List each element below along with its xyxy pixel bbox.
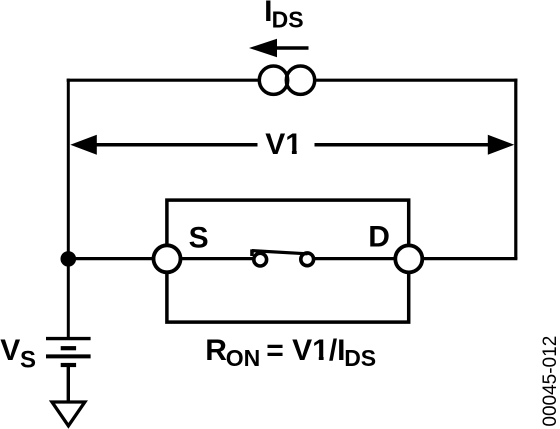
wire top horizontal: [67, 79, 518, 82]
svg-text:V1: V1: [265, 128, 302, 161]
wire switch to D terminal: [306, 257, 409, 260]
switch lever pivot tick: [250, 249, 254, 256]
wire left vertical: [67, 79, 70, 339]
wire right horizontal to D terminal: [409, 257, 518, 260]
svg-text:DS: DS: [344, 345, 376, 371]
svg-text:= V1/I: = V1/I: [266, 334, 345, 367]
switch lever: [252, 251, 308, 254]
switch contact right circle: [301, 253, 314, 266]
svg-text:DS: DS: [272, 7, 304, 33]
terminal D circle: [395, 245, 422, 272]
svg-text:D: D: [368, 220, 390, 253]
V1 measurement arrow: [70, 135, 514, 155]
battery VS: [46, 339, 91, 365]
terminal S circle: [154, 245, 181, 272]
wire battery to ground: [67, 365, 70, 401]
svg-text:S: S: [189, 221, 209, 254]
wire left horizontal to S terminal: [68, 257, 254, 260]
switch contact left circle: [254, 253, 267, 266]
svg-text:R: R: [205, 334, 227, 367]
switch box (DUT outline): [167, 200, 409, 322]
ground: [52, 402, 85, 426]
I_DS arrow: [249, 39, 309, 57]
label RON = V1/IDS: [205, 334, 376, 371]
current source U1 (overlapping circles): [259, 66, 314, 94]
node junction dot: [61, 251, 77, 267]
svg-text:ON: ON: [226, 345, 260, 371]
wire right vertical: [514, 79, 517, 259]
svg-text:00045-012: 00045-012: [540, 336, 560, 427]
svg-text:S: S: [20, 347, 36, 374]
svg-text:V: V: [0, 334, 20, 367]
